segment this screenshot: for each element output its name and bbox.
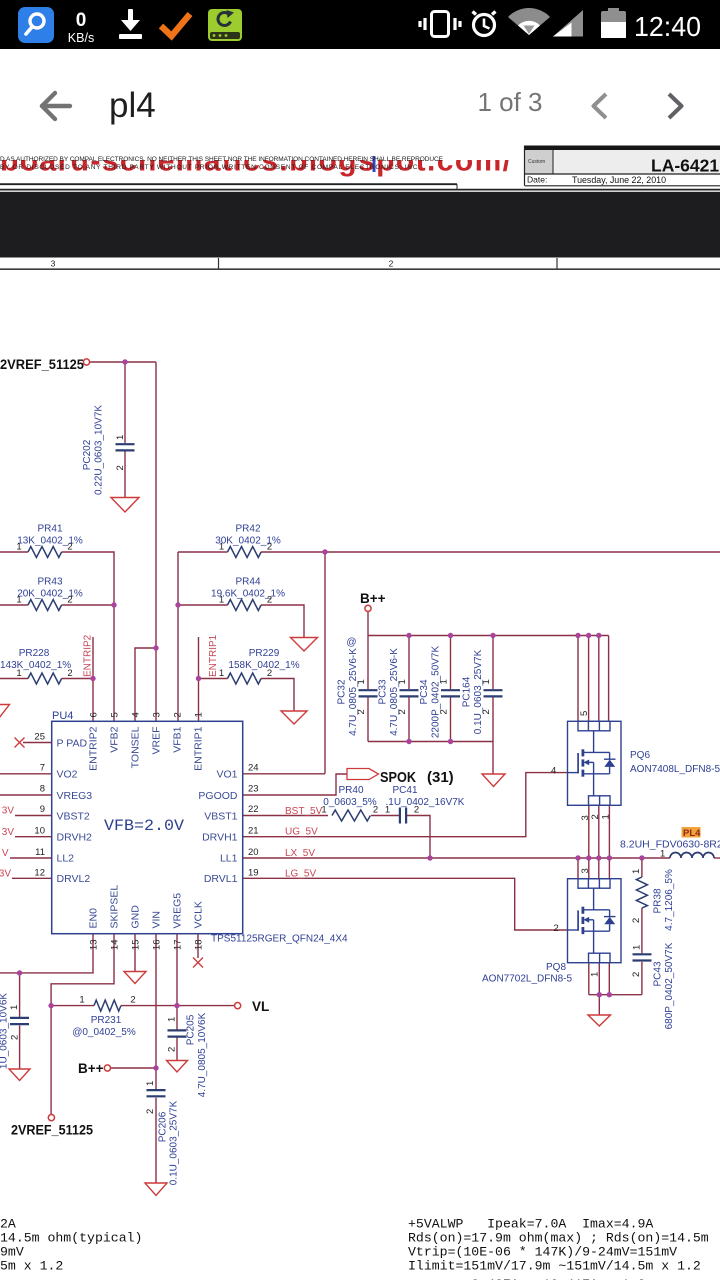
svg-text:VFB1: VFB1 bbox=[172, 726, 184, 752]
wire PR228 to ENTRIP2 bbox=[62, 678, 93, 680]
junction 2VREF/PC202 bbox=[122, 359, 127, 364]
wire PC164 column bbox=[492, 636, 494, 690]
junction B++ bus PQ6 pin c bbox=[596, 633, 601, 638]
capacitor PC202 bbox=[10, 444, 652, 1096]
svg-text:3: 3 bbox=[580, 868, 591, 873]
svg-text:PC164: PC164 bbox=[462, 676, 473, 707]
wire PR229 right to ground bbox=[261, 679, 294, 711]
terminal circle B++ bottom bbox=[104, 1065, 110, 1071]
app icon blue magnifier bbox=[18, 7, 54, 43]
wire PR38 top bbox=[641, 858, 643, 877]
svg-text:DRVL2: DRVL2 bbox=[57, 873, 91, 885]
resistor PR228 bbox=[28, 673, 62, 684]
svg-text:VFB=2.0V: VFB=2.0V bbox=[104, 817, 184, 835]
svg-text:SPOK: SPOK bbox=[380, 769, 416, 786]
wire UG_5V row to PQ6 gate bbox=[243, 773, 568, 837]
red net labels bbox=[0, 634, 323, 879]
svg-text:2: 2 bbox=[67, 668, 72, 679]
wire PR231 row bbox=[51, 1005, 94, 1007]
svg-text:2: 2 bbox=[397, 709, 408, 714]
battery icon bbox=[601, 8, 626, 38]
green drive icon bbox=[208, 9, 242, 41]
svg-text:1: 1 bbox=[631, 869, 642, 874]
junction B++/VIN/PC206 bbox=[153, 1065, 158, 1070]
inductor PL4 coil bbox=[670, 853, 714, 859]
svg-text:2VREF_51125: 2VREF_51125 bbox=[0, 357, 84, 372]
svg-text:1: 1 bbox=[145, 1081, 156, 1086]
wire PR41 to VFB2 corner bbox=[62, 552, 114, 605]
svg-text:Vtrip=(10E-06 * 147K)/9-24mV=1: Vtrip=(10E-06 * 147K)/9-24mV=151mV bbox=[408, 1245, 677, 1260]
svg-text:LL2: LL2 bbox=[57, 853, 75, 865]
svg-text:1: 1 bbox=[601, 814, 612, 819]
wire caps bus to ground bbox=[492, 742, 494, 774]
svg-text:TPS51125RGER_QFN24_4X4: TPS51125RGER_QFN24_4X4 bbox=[211, 934, 348, 945]
svg-text:5: 5 bbox=[579, 711, 590, 716]
svg-text:15: 15 bbox=[131, 940, 142, 951]
svg-text:PC205: PC205 bbox=[186, 1014, 197, 1045]
wire VO1 vertical bbox=[324, 552, 326, 774]
orange checkmark bbox=[161, 14, 190, 36]
svg-text:P PAD: P PAD bbox=[57, 738, 88, 750]
wire PC206 to ground bbox=[155, 1098, 157, 1183]
svg-text:11: 11 bbox=[35, 847, 45, 858]
junction PR41/PR43/VFB2 bbox=[111, 602, 116, 607]
svg-text:VCLK: VCLK bbox=[193, 901, 205, 928]
svg-text:Date:: Date: bbox=[527, 175, 547, 185]
svg-text:LA-6421P: LA-6421P bbox=[651, 156, 720, 176]
ground partial left edge bbox=[0, 705, 10, 719]
terminal circle B++ top bbox=[365, 605, 371, 611]
svg-text:1: 1 bbox=[16, 542, 21, 553]
svg-text:1: 1 bbox=[385, 805, 390, 816]
toolbar bbox=[0, 49, 720, 143]
wire BST_5V row bbox=[243, 815, 328, 817]
capacitor PC164 bbox=[484, 689, 503, 691]
junction PR42/VO1 node bbox=[322, 549, 327, 554]
wire PR44 right to ground bbox=[261, 605, 304, 637]
svg-text:ENTRIP1: ENTRIP1 bbox=[193, 726, 205, 771]
svg-text:19: 19 bbox=[248, 868, 259, 879]
wire DRVL2 stub bbox=[12, 877, 52, 879]
svg-text:680P_0402_50V7K: 680P_0402_50V7K bbox=[664, 942, 675, 1029]
svg-text:2: 2 bbox=[167, 1047, 178, 1052]
wire SKIPSEL jog bbox=[51, 934, 114, 1006]
wire PQ8 bus to ground bbox=[598, 995, 600, 1015]
IC PU4 box bbox=[52, 721, 243, 933]
svg-text:2: 2 bbox=[267, 668, 272, 679]
ground PC205 bbox=[167, 1061, 188, 1073]
svg-text:PC32: PC32 bbox=[337, 679, 348, 704]
ground PR229 bbox=[281, 711, 307, 724]
svg-text:2: 2 bbox=[267, 595, 272, 606]
download icon bbox=[119, 9, 142, 39]
resistor PR44 bbox=[228, 600, 262, 611]
wire VREG5 vertical bbox=[176, 934, 178, 1030]
wire B++ to VIN bbox=[111, 1067, 157, 1069]
svg-text:4: 4 bbox=[131, 712, 142, 717]
black band bbox=[0, 192, 720, 258]
terminal circle 2VREF bottom bbox=[48, 1115, 54, 1121]
svg-text:VO1: VO1 bbox=[216, 769, 237, 781]
svg-text:1: 1 bbox=[632, 945, 643, 950]
svg-text:14.5m ohm(typical): 14.5m ohm(typical) bbox=[0, 1231, 142, 1246]
zone strip bbox=[0, 258, 720, 269]
svg-text:PC206: PC206 bbox=[158, 1111, 169, 1142]
svg-text:8.2UH_FDV0630-8R2MB: 8.2UH_FDV0630-8R2MB bbox=[620, 839, 720, 851]
svg-text:158K_0402_1%: 158K_0402_1% bbox=[228, 660, 299, 671]
svg-text:2: 2 bbox=[67, 595, 72, 606]
resistor PR42 bbox=[228, 547, 262, 558]
wire PR40 to PC41 bbox=[371, 815, 399, 817]
svg-text:23: 23 bbox=[248, 784, 259, 795]
svg-text:DRVH2: DRVH2 bbox=[57, 832, 93, 844]
svg-text:1: 1 bbox=[115, 435, 126, 440]
svg-text:Custom: Custom bbox=[528, 159, 545, 165]
svg-text:Rds(on)=17.9m ohm(max) ; Rds(o: Rds(on)=17.9m ohm(max) ; Rds(on)=14.5m bbox=[408, 1231, 709, 1246]
wire VO2 bbox=[0, 773, 52, 775]
svg-text:14: 14 bbox=[110, 940, 121, 951]
svg-text:25: 25 bbox=[34, 732, 45, 743]
junction B++ bus PC34 bbox=[448, 633, 453, 638]
network speed text bbox=[68, 10, 94, 45]
svg-text:VFB2: VFB2 bbox=[109, 726, 121, 752]
svg-text:PQ6: PQ6 bbox=[630, 750, 650, 761]
svg-text:1: 1 bbox=[481, 679, 492, 684]
svg-text:PR42: PR42 bbox=[235, 524, 260, 535]
wire VREG3 bbox=[0, 794, 52, 796]
svg-text:UG_5V: UG_5V bbox=[285, 827, 318, 838]
svg-text:20: 20 bbox=[248, 847, 259, 858]
svg-text:PR231: PR231 bbox=[91, 1015, 122, 1026]
wire B++ drop bbox=[367, 612, 369, 636]
svg-text:0.1U_0603_25V7K: 0.1U_0603_25V7K bbox=[473, 649, 484, 734]
svg-text:22: 22 bbox=[248, 804, 259, 815]
wire PR43 left bbox=[0, 604, 28, 606]
svg-text:2: 2 bbox=[115, 465, 126, 470]
wire caps bottom bus bbox=[368, 741, 493, 743]
svg-text:SKIPSEL: SKIPSEL bbox=[109, 885, 121, 929]
svg-text:5: 5 bbox=[110, 712, 121, 717]
svg-text:24: 24 bbox=[248, 763, 259, 774]
wire P PAD bbox=[23, 742, 52, 744]
junction SKIPSEL/PR231/2VREF bbox=[48, 1003, 53, 1008]
svg-text:DRVH1: DRVH1 bbox=[202, 832, 238, 844]
svg-text:1: 1 bbox=[219, 595, 224, 606]
wire VCLK stub bbox=[197, 934, 199, 958]
svg-text:PR38: PR38 bbox=[653, 888, 664, 913]
junction B++ bus PC164 bbox=[490, 633, 495, 638]
terminal circle 2VREF top bbox=[48, 359, 371, 1121]
junction LX/PQ6 source c bbox=[607, 855, 612, 860]
resistor PR229 bbox=[228, 673, 262, 684]
svg-text:1: 1 bbox=[9, 1005, 20, 1010]
SPOK net flag bbox=[347, 769, 379, 780]
blue form mark bbox=[373, 156, 376, 172]
svg-text:VO2: VO2 bbox=[57, 769, 78, 781]
net flag text 2VREF_51125 top bbox=[0, 357, 454, 1138]
svg-text:@: @ bbox=[346, 637, 356, 648]
wire ENTRIP2 vertical bbox=[92, 637, 94, 721]
ground PQ8 source bbox=[588, 1015, 611, 1026]
sheet border lines bbox=[0, 183, 457, 185]
wire left cap column bbox=[19, 973, 21, 1017]
junction B++ bus PC33 bbox=[406, 633, 411, 638]
wire PC32 column bbox=[367, 636, 369, 690]
wire PC202 bottom to ground bbox=[124, 452, 126, 498]
wire PC202 top drop bbox=[124, 362, 126, 443]
svg-text:3V: 3V bbox=[0, 869, 11, 880]
resistor PR41 bbox=[28, 547, 647, 1012]
wire PR229 left bbox=[199, 678, 228, 680]
junction TONSEL/VREF bbox=[153, 645, 158, 650]
svg-text:PL4: PL4 bbox=[683, 828, 701, 839]
rotated cap labels bbox=[0, 405, 675, 1186]
svg-text:PQ8: PQ8 bbox=[546, 962, 566, 973]
wire PC34 column bbox=[450, 636, 452, 690]
svg-text:3: 3 bbox=[152, 712, 163, 717]
wire VO1 row bbox=[243, 773, 325, 775]
wire PR42 right to node bbox=[261, 551, 325, 553]
wire PC41 to LX bbox=[407, 816, 431, 859]
svg-text:9mV: 9mV bbox=[0, 1245, 24, 1260]
wire VFB1 vertical bbox=[177, 552, 179, 721]
junction LX/PQ6 source a bbox=[586, 855, 591, 860]
svg-text:3: 3 bbox=[51, 259, 56, 269]
wire node to right edge bbox=[325, 551, 720, 553]
junction LX/PQ8 pin a bbox=[575, 855, 580, 860]
svg-text:2A: 2A bbox=[0, 1217, 16, 1232]
resistor PR38 vertical bbox=[636, 877, 647, 908]
junction caps bus PC34 bbox=[448, 739, 453, 744]
svg-text:5m x 1.2: 5m x 1.2 bbox=[0, 1259, 63, 1274]
svg-text:1: 1 bbox=[219, 668, 224, 679]
svg-text:BY OR DISCLOSED TO ANY THIRD P: BY OR DISCLOSED TO ANY THIRD PARTY WITHO… bbox=[0, 164, 420, 171]
junction PR228/ENTRIP2 bbox=[90, 676, 95, 681]
svg-text:BST_5V: BST_5V bbox=[285, 806, 323, 817]
svg-text:1: 1 bbox=[397, 679, 408, 684]
svg-text:PGOOD: PGOOD bbox=[198, 790, 238, 802]
svg-text:PC41: PC41 bbox=[392, 785, 417, 796]
svg-text:VREF: VREF bbox=[151, 727, 163, 755]
component labels blue bbox=[0, 524, 720, 1039]
svg-text:143K_0402_1%: 143K_0402_1% bbox=[0, 660, 71, 671]
svg-text:1: 1 bbox=[356, 679, 367, 684]
wire DRVH2 stub bbox=[15, 836, 52, 838]
title block bbox=[524, 146, 720, 187]
svg-text:0.1U_0603_25V7K: 0.1U_0603_25V7K bbox=[169, 1100, 180, 1185]
wire VFB2 vertical bbox=[113, 605, 115, 721]
signal triangle bbox=[553, 10, 583, 37]
svg-text:4: 4 bbox=[551, 766, 556, 777]
svg-text:1: 1 bbox=[321, 805, 326, 816]
wire EN0 row bbox=[0, 934, 93, 973]
svg-text:1: 1 bbox=[16, 595, 21, 606]
capacitor PC206 bbox=[147, 1089, 166, 1091]
wire LG_5V row to PQ8 gate bbox=[243, 878, 568, 930]
svg-text:4.7U_0805_25V6-K: 4.7U_0805_25V6-K bbox=[348, 648, 359, 736]
svg-text:6: 6 bbox=[89, 712, 100, 717]
svg-text:ENTRIP2: ENTRIP2 bbox=[83, 634, 94, 677]
svg-text:@0_0402_5%: @0_0402_5% bbox=[72, 1027, 136, 1038]
svg-text:ENTRIP2: ENTRIP2 bbox=[88, 726, 100, 771]
svg-text:2: 2 bbox=[554, 923, 559, 934]
svg-text:PC202: PC202 bbox=[82, 439, 93, 470]
wire GND pin15 bbox=[134, 934, 136, 971]
svg-text:2: 2 bbox=[373, 805, 378, 816]
junction LX/PR38 bbox=[639, 855, 644, 860]
svg-text:4.7U_0805_25V6-K: 4.7U_0805_25V6-K bbox=[389, 648, 400, 736]
MOSFET PQ8 bbox=[568, 879, 622, 963]
wire B++ bus bbox=[368, 635, 609, 637]
svg-text:1: 1 bbox=[79, 995, 84, 1006]
capacitor PC34 bbox=[441, 689, 460, 691]
ground PC206 bbox=[145, 1183, 167, 1196]
capacitor PC32 bbox=[359, 689, 378, 691]
junction LX/PC41 bbox=[427, 855, 432, 860]
svg-text:Ilimit=151mV/17.9m ~151mV/14.5: Ilimit=151mV/17.9m ~151mV/14.5m x 1.2 bbox=[408, 1259, 701, 1274]
svg-text:16: 16 bbox=[152, 940, 163, 951]
no-connect X at P PAD bbox=[15, 738, 204, 968]
svg-text:2: 2 bbox=[439, 709, 450, 714]
ground GND pin bbox=[124, 972, 146, 984]
svg-text:2: 2 bbox=[267, 542, 272, 553]
svg-text:LG_5V: LG_5V bbox=[285, 869, 316, 880]
wire ENTRIP1 vertical bbox=[198, 637, 200, 721]
wire PR38 to PC43 bbox=[641, 908, 643, 953]
svg-text:13: 13 bbox=[89, 940, 100, 951]
status bar bbox=[0, 0, 720, 49]
ground PC202 bbox=[0, 498, 611, 1196]
svg-text:17: 17 bbox=[173, 940, 184, 951]
svg-text:VIN: VIN bbox=[151, 911, 163, 929]
svg-text:PC34: PC34 bbox=[419, 679, 430, 704]
svg-text:21: 21 bbox=[248, 826, 259, 837]
svg-text:0_0603_5%: 0_0603_5% bbox=[323, 797, 376, 808]
svg-text:2: 2 bbox=[173, 712, 184, 717]
wire PR41 left bbox=[0, 551, 28, 553]
svg-text:2: 2 bbox=[590, 814, 601, 819]
svg-text:2: 2 bbox=[481, 709, 492, 714]
wire PC205 to ground bbox=[176, 1038, 178, 1061]
svg-text:VREG3: VREG3 bbox=[57, 790, 93, 802]
svg-text:2: 2 bbox=[631, 972, 642, 977]
svg-text:PR44: PR44 bbox=[235, 577, 260, 588]
svg-text:12: 12 bbox=[34, 868, 45, 879]
ground caps bus bbox=[482, 774, 505, 787]
svg-text:VREG5: VREG5 bbox=[172, 893, 184, 929]
svg-text:10: 10 bbox=[34, 826, 45, 837]
capacitor PC43 bbox=[633, 953, 652, 955]
wire VIN vertical bbox=[155, 934, 157, 1089]
junction PQ8 source bus PC43 bbox=[607, 992, 612, 997]
svg-text:EN0: EN0 bbox=[88, 908, 100, 929]
junction B++ bus PQ6 pin a bbox=[575, 633, 580, 638]
svg-text:7: 7 bbox=[40, 763, 45, 774]
vibrate icon bbox=[420, 12, 460, 37]
svg-text:1: 1 bbox=[194, 712, 205, 717]
svg-text:AON7702L_DFN8-5: AON7702L_DFN8-5 bbox=[482, 974, 572, 985]
prev chevron bbox=[594, 94, 607, 118]
svg-text:PR228: PR228 bbox=[19, 648, 50, 659]
resistor PR40 bbox=[332, 810, 370, 821]
svg-text:2: 2 bbox=[631, 918, 642, 923]
svg-text:LX_5V: LX_5V bbox=[285, 848, 315, 859]
svg-text:PR43: PR43 bbox=[37, 577, 62, 588]
no-connect X at VCLK bbox=[193, 958, 203, 968]
alarm clock icon bbox=[473, 12, 496, 36]
wire PQ8 drain pins bbox=[577, 858, 579, 879]
svg-text:20K_0402_1%: 20K_0402_1% bbox=[17, 589, 83, 600]
svg-text:B++: B++ bbox=[78, 1061, 104, 1076]
wire VBST2 stub bbox=[15, 815, 52, 817]
capacitor at EN0 (left, partial) bbox=[10, 1017, 29, 1019]
svg-text:DRVL1: DRVL1 bbox=[204, 873, 238, 885]
svg-text:VBST1: VBST1 bbox=[204, 811, 237, 823]
svg-text:PR40: PR40 bbox=[338, 785, 363, 796]
svg-text:ENTRIP1: ENTRIP1 bbox=[208, 634, 219, 677]
wire PC43 bottom bbox=[641, 962, 643, 995]
svg-text:0.22U_0603_10V7K: 0.22U_0603_10V7K bbox=[94, 405, 105, 495]
next chevron bbox=[669, 94, 682, 118]
bottom notes text bbox=[0, 1217, 709, 1285]
junction PQ8 source bus ground bbox=[597, 992, 602, 997]
ground PR44 bbox=[291, 638, 318, 652]
wire TONSEL jog bbox=[135, 648, 156, 721]
svg-text:2: 2 bbox=[67, 542, 72, 553]
junction VREG5/PR231/PC205 bbox=[174, 1003, 179, 1008]
svg-text:1U_0603_10V6K: 1U_0603_10V6K bbox=[0, 993, 10, 1070]
svg-text:PU4: PU4 bbox=[52, 710, 73, 722]
junction B++ bus PQ6 pin b bbox=[586, 633, 591, 638]
svg-text:2: 2 bbox=[10, 1035, 21, 1040]
wire LX_5V row bbox=[243, 857, 670, 859]
svg-text:3V: 3V bbox=[2, 827, 15, 838]
svg-text:AON7408L_DFN8-5: AON7408L_DFN8-5 bbox=[630, 764, 720, 775]
wire PR231 to VL bbox=[121, 1005, 235, 1007]
svg-text:2: 2 bbox=[356, 709, 367, 714]
wire VREF vertical bbox=[155, 362, 157, 721]
wire PR43 to junction bbox=[62, 604, 114, 606]
svg-text:PR41: PR41 bbox=[37, 524, 62, 535]
svg-text:2: 2 bbox=[414, 805, 419, 816]
resistor PR231 bbox=[94, 1000, 121, 1011]
wifi icon bbox=[508, 8, 550, 35]
svg-text:Tuesday, June 22, 2010: Tuesday, June 22, 2010 bbox=[572, 175, 666, 186]
svg-text:1: 1 bbox=[439, 679, 450, 684]
svg-text:V: V bbox=[2, 848, 9, 859]
svg-text:PC43: PC43 bbox=[653, 961, 664, 986]
svg-text:PC33: PC33 bbox=[378, 679, 389, 704]
capacitor PC41 bbox=[399, 808, 401, 824]
wire PQ8 source pins bbox=[588, 963, 590, 995]
svg-text:+5VALWP Ipeak=7.0A Imax=4.9: +5VALWP Ipeak=7.0A Imax=4.9A bbox=[408, 1217, 653, 1232]
wire PGOOD row to SPOK bbox=[243, 774, 347, 795]
IC pin names bbox=[57, 726, 238, 928]
ground left cap bbox=[9, 1069, 30, 1081]
svg-text:4.7U_0805_10V6K: 4.7U_0805_10V6K bbox=[197, 1012, 208, 1097]
svg-text:PR229: PR229 bbox=[249, 648, 280, 659]
wire PR44 left bbox=[178, 604, 228, 606]
junction PR229/ENTRIP1 bbox=[196, 676, 201, 681]
svg-text:9: 9 bbox=[40, 804, 45, 815]
svg-text:1: 1 bbox=[219, 542, 224, 553]
svg-text:2: 2 bbox=[389, 259, 394, 269]
wire 2VREF bottom drop bbox=[50, 1006, 52, 1115]
svg-text:B++: B++ bbox=[360, 591, 386, 606]
svg-text:2VREF_51125: 2VREF_51125 bbox=[11, 1123, 93, 1138]
svg-text:TONSEL: TONSEL bbox=[130, 726, 142, 768]
resistor PR43 bbox=[28, 600, 62, 611]
